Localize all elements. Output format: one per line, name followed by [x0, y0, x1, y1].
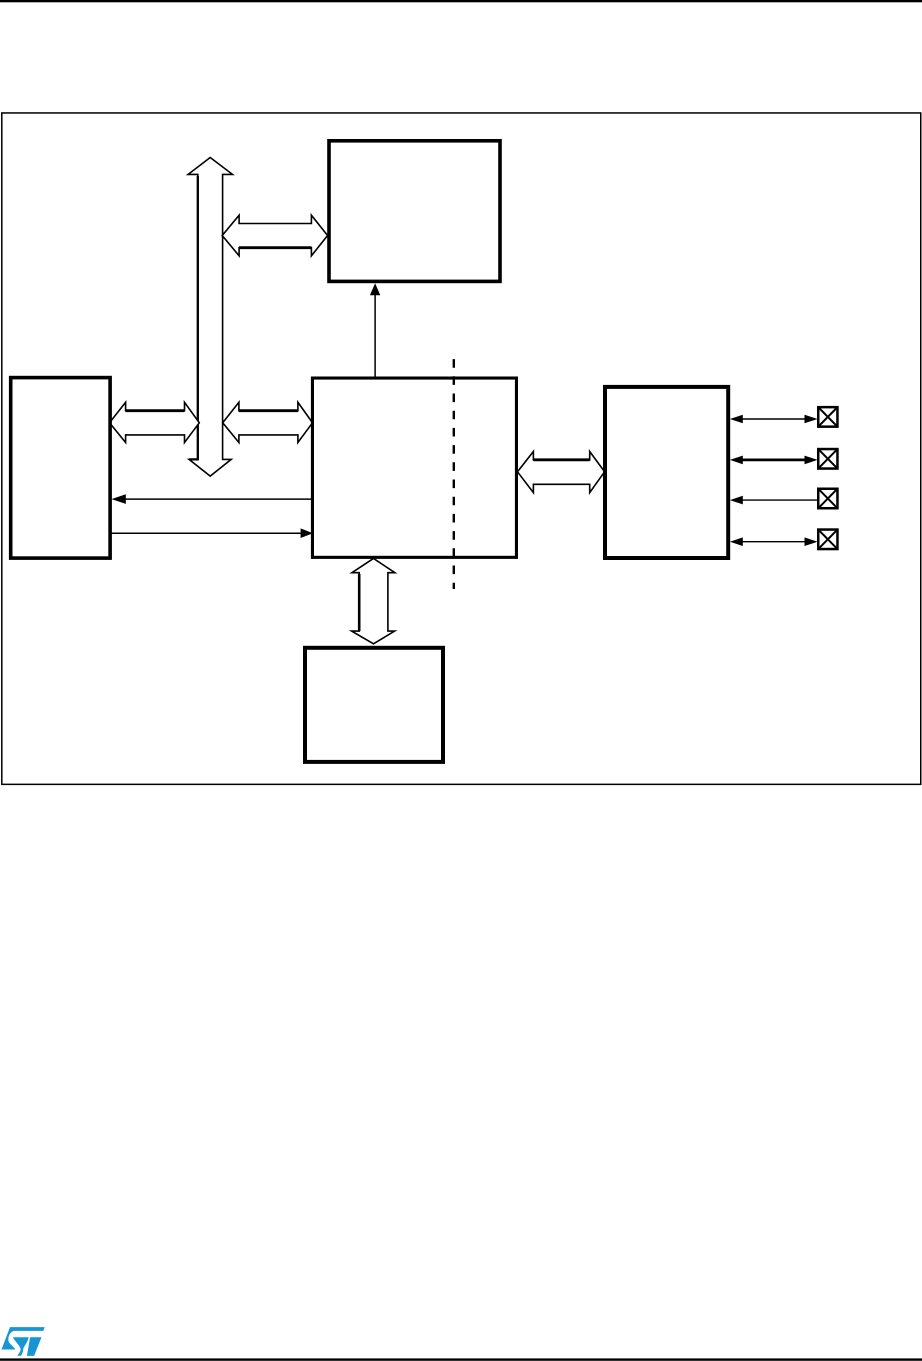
left box (memory block): [11, 378, 110, 558]
top box (peripheral block): [329, 141, 500, 282]
wire R3 (I/O row 3 arrow to block): [741, 499, 817, 501]
bottom footer rule: [0, 1358, 922, 1360]
pad P1: [818, 407, 837, 427]
wire V1 lower-left thick edge: [189, 176, 198, 459]
bus arrow B (left box to V1): [110, 402, 200, 442]
wire B top thick edge: [126, 409, 185, 412]
bus arrow C (V1 to CPU box): [223, 402, 313, 442]
bus arrow E (CPU box to bottom box): [352, 558, 395, 643]
wire A bottom thick edge: [239, 246, 311, 249]
bus arrow D (CPU box to right box): [518, 452, 605, 493]
figure frame: [2, 113, 921, 784]
pad P4: [818, 530, 837, 550]
wire R4 (I/O row 4 double arrow): [741, 541, 806, 543]
wire G (left box to CPU, arrow right): [111, 532, 301, 534]
wire T1 (CPU to top box): [374, 294, 376, 379]
wire D top thick edge: [533, 458, 589, 461]
bottom box (oscillator block): [305, 648, 443, 762]
ST logo: [2, 1327, 45, 1356]
bus arrow A (V1 to top box): [222, 215, 327, 256]
wire E left thick edge: [358, 574, 361, 631]
pad P3: [818, 489, 837, 509]
wire C top thick edge: [239, 409, 298, 412]
top header rule: [0, 0, 922, 2]
wire R2 (I/O row 2 double arrow thick): [741, 458, 806, 461]
wire F (CPU to left box, arrow left): [124, 498, 312, 500]
right box (I/O block): [605, 387, 728, 558]
pad P2: [818, 449, 837, 469]
center box (CPU block): [312, 378, 516, 557]
wire R1 (I/O row 1 double arrow): [741, 418, 806, 420]
dashed partition line: [453, 359, 455, 589]
bus arrow V1 (vertical double arrow): [188, 158, 232, 477]
